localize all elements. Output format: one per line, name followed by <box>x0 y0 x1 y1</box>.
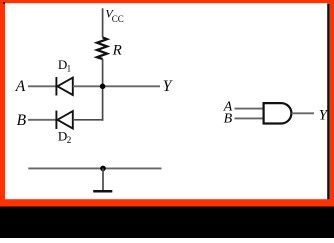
wire D1 to Y <box>73 85 160 87</box>
svg-text:B: B <box>224 111 233 126</box>
wire B to D2 <box>28 119 56 121</box>
diode D2 <box>56 111 72 130</box>
ground symbol <box>102 168 104 190</box>
wire A to gate <box>235 108 264 110</box>
wire VCC vertical <box>102 8 104 37</box>
node dot on rail <box>100 166 106 172</box>
wire gate output <box>292 112 315 114</box>
red frame right bar <box>330 0 334 207</box>
svg-text:CC: CC <box>112 14 124 24</box>
red frame bottom bar <box>0 199 334 206</box>
svg-text:Y: Y <box>163 78 173 95</box>
diode D1 <box>56 77 72 96</box>
red frame top bar <box>0 0 334 3</box>
svg-text:2: 2 <box>67 135 72 145</box>
svg-text:B: B <box>17 112 27 129</box>
svg-text:R: R <box>112 43 122 59</box>
svg-text:A: A <box>15 78 26 95</box>
wire B to gate <box>235 117 264 119</box>
red frame left bar <box>0 0 5 207</box>
cursor dot top-left <box>3 2 5 4</box>
node junction dot <box>100 84 106 90</box>
svg-text:1: 1 <box>67 64 72 74</box>
AND gate U1 <box>264 103 292 123</box>
wire A to D1 <box>28 85 56 87</box>
black letterbox bottom <box>0 207 334 239</box>
black line inside right border <box>327 4 330 200</box>
wire D2 to corner <box>73 119 104 121</box>
resistor R <box>97 37 107 59</box>
wire resistor to D2 corner (vertical) <box>102 59 104 121</box>
ground rail horizontal wire <box>28 167 161 169</box>
